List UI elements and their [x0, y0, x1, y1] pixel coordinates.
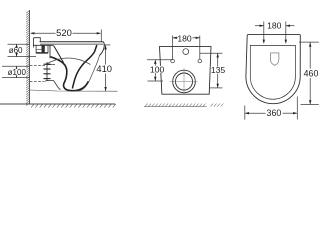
small shield (water inlet) [271, 53, 279, 65]
drain circles [173, 70, 196, 93]
mounting holes [171, 59, 175, 63]
svg-text:ø100: ø100 [8, 68, 27, 77]
back ledge [33, 38, 40, 48]
svg-text:520: 520 [56, 27, 72, 38]
dim 180 right (outside arrows) [255, 22, 295, 44]
bowl thick outline: back S + bottom + rise [51, 45, 97, 91]
dim 180 middle [173, 36, 200, 60]
svg-text:180: 180 [177, 34, 192, 44]
wall hatch [26, 10, 30, 105]
svg-text:180: 180 [267, 21, 282, 31]
dim 360 [245, 97, 297, 120]
svg-text:360: 360 [267, 108, 282, 118]
bowl front inner wall [72, 45, 96, 89]
back bottom contour [45, 80, 61, 89]
svg-text:ø60: ø60 [9, 46, 23, 55]
wall line [29, 10, 31, 104]
outer seat outline [246, 35, 300, 104]
svg-text:460: 460 [304, 69, 319, 79]
dim 135 middle [200, 53, 223, 88]
bottom reference line [30, 90, 118, 91]
svg-text:100: 100 [150, 64, 165, 74]
diagonal flush pipe [54, 46, 64, 63]
threaded pipe [44, 62, 51, 81]
dim 460 [299, 42, 319, 105]
thin front silhouette [30, 56, 118, 92]
dim 100 middle [147, 60, 173, 81]
inner seat ring [250, 45, 295, 99]
seat opening arc [46, 58, 91, 65]
dim ø60 [8, 44, 37, 56]
lid front rounded edge [100, 42, 105, 56]
dim 410 [104, 45, 111, 91]
svg-text:410: 410 [96, 63, 112, 74]
inlet circle [183, 49, 189, 55]
floor hatch [31, 104, 116, 108]
floor line [0, 103, 115, 105]
crosshair [170, 81, 198, 83]
svg-text:135: 135 [211, 65, 226, 75]
pipe top connector [47, 64, 56, 66]
dim 520 [30, 30, 101, 42]
ground hatch under middle [144, 104, 223, 107]
toilet: seat lid double line [33, 38, 104, 63]
dim ø100 [2, 66, 30, 77]
body trapezoid [160, 47, 212, 95]
mounting box [33, 44, 53, 46]
hidden drain pipe dashed lines [30, 66, 47, 82]
